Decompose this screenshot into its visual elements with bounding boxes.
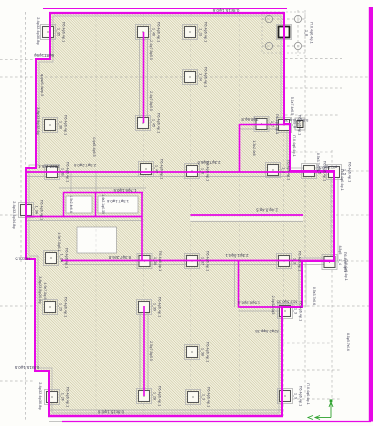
svg-text:1_3A: 1_3A [35, 206, 39, 215]
svg-text:Π6.4φ6.4φ.1: Π6.4φ6.4φ.1 [204, 67, 208, 87]
svg-text:1.3φ7.1φ0.6: 1.3φ7.1φ0.6 [106, 199, 129, 204]
svg-text:2.4φ7.8φ5.5: 2.4φ7.8φ5.5 [149, 40, 153, 60]
svg-text:1_9: 1_9 [294, 393, 298, 399]
svg-text:2.3φ1.δφ4.1: 2.3φ1.δφ4.1 [225, 253, 249, 258]
svg-text:Π6.4φ6.4φ.1: Π6.4φ6.4φ.1 [298, 115, 302, 135]
svg-text:1_J: 1_J [282, 167, 286, 173]
svg-text:1_37: 1_37 [201, 257, 205, 265]
svg-text:4.9ε7.δφ.6: 4.9ε7.δφ.6 [43, 283, 47, 300]
svg-text:1_J3: 1_J3 [199, 28, 203, 36]
svg-text:Π6.4φ6.4φ.1: Π6.4φ6.4φ.1 [206, 251, 210, 271]
svg-text:0.5ε3.7ε0.6: 0.5ε3.7ε0.6 [312, 287, 316, 305]
svg-text:1.4ε2.1φ0.35: 1.4ε2.1φ0.35 [101, 194, 105, 214]
svg-text:1_3: 1_3 [294, 308, 298, 314]
svg-text:1_38: 1_38 [201, 348, 205, 356]
svg-text:1_8: 1_8 [305, 30, 309, 36]
svg-text:1_6: 1_6 [201, 168, 205, 174]
svg-text:φ5Σ1φφ2-3: φ5Σ1φφ2-3 [319, 165, 337, 169]
svg-text:Π6.4φ6.4φ.1: Π6.4φ6.4φ.1 [158, 386, 162, 406]
svg-text:Π6.4φ6.4φ.1: Π6.4φ6.4φ.1 [40, 200, 44, 220]
svg-text:Π6.4φ6.4φ.1: Π6.4φ6.4φ.1 [287, 160, 291, 180]
svg-text:6φ8Σ1φ6φ: 6φ8Σ1φ6φ [34, 53, 54, 58]
svg-text:2.3φ7.δφ6.δ: 2.3φ7.δφ6.δ [197, 160, 221, 165]
svg-text:1_J4: 1_J4 [199, 73, 203, 81]
svg-text:Π6.4φ6.4φ.1: Π6.4φ6.4φ.1 [206, 342, 210, 362]
svg-text:4.9ε7.δφ6.1: 4.9ε7.δφ6.1 [57, 233, 61, 252]
svg-text:Π6.4φ6.4φ.1: Π6.4φ6.4φ.1 [298, 251, 302, 271]
svg-text:Π.0.4φ0.4φ.1: Π.0.4φ0.4φ.1 [344, 259, 348, 280]
svg-text:2.5φ7.8φ5.5: 2.5φ7.8φ5.5 [149, 341, 153, 361]
svg-text:1_2A: 1_2A [60, 254, 64, 263]
svg-text:2φ8.6φ.8: 2φ8.6φ.8 [241, 117, 259, 122]
svg-text:1_7: 1_7 [270, 121, 274, 127]
svg-text:1_29: 1_29 [59, 303, 63, 311]
svg-text:5.1ε7.4ε0.5: 5.1ε7.4ε0.5 [290, 97, 294, 115]
svg-text:Π6.4φ6.4φ.1: Π6.4φ6.4φ.1 [64, 115, 68, 135]
svg-text:0.5ε3.7ε0.5: 0.5ε3.7ε0.5 [316, 153, 320, 171]
svg-text:Π6.4φ6.4φ.1: Π6.4φ6.4φ.1 [207, 387, 211, 407]
svg-text:1_45: 1_45 [152, 119, 156, 127]
svg-text:0.8ε15.1φ0.6: 0.8ε15.1φ0.6 [97, 410, 124, 415]
svg-text:2.4φ32.4φ3: 2.4φ32.4φ3 [271, 296, 275, 315]
svg-text:1Β2Ζ6.5: 1Β2Ζ6.5 [15, 257, 31, 262]
svg-text:1_3b: 1_3b [61, 168, 65, 176]
svg-text:δΣ2.5φ0.35: δΣ2.5φ0.35 [276, 300, 297, 305]
svg-text:1_39: 1_39 [153, 303, 157, 311]
svg-text:Π6.4φ6.4φ.1: Π6.4φ6.4φ.1 [157, 113, 161, 133]
svg-text:8.3φ7.2ε6.8: 8.3φ7.2ε6.8 [108, 255, 131, 260]
svg-text:Π6.4φ6.4φ.1: Π6.4φ6.4φ.1 [160, 159, 164, 179]
svg-text:Π6.4φ6.4φ.1: Π6.4φ6.4φ.1 [65, 248, 69, 268]
svg-text:Π6.4φ6.4φ.1: Π6.4φ6.4φ.1 [348, 162, 352, 182]
svg-text:1_36: 1_36 [59, 121, 63, 129]
svg-text:2.3φ7.2φ0.5: 2.3φ7.2φ0.5 [73, 163, 96, 168]
svg-text:1_3: 1_3 [202, 394, 206, 400]
svg-text:1_4: 1_4 [338, 259, 342, 265]
svg-text:φ.φw5.4wφ.5: φ.φw5.4wφ.5 [40, 74, 44, 96]
svg-text:Π6.4φ6.4φ.1: Π6.4φ6.4φ.1 [323, 161, 327, 181]
svg-text:2.4φ.δ.4φ.5: 2.4φ.δ.4φ.5 [255, 208, 277, 213]
svg-text:1_3: 1_3 [293, 258, 297, 264]
svg-text:Π6.4φ6.4φ.1: Π6.4φ6.4φ.1 [299, 386, 303, 406]
svg-text:2.4φ32.4φ30.8φ: 2.4φ32.4φ30.8φ [36, 17, 40, 45]
svg-text:1_47: 1_47 [155, 165, 159, 173]
svg-text:5.5φ3Π5.φ.35: 5.5φ3Π5.φ.35 [283, 118, 309, 123]
svg-text:1Β2Ζ.2ε6.4: 1Β2Ζ.2ε6.4 [38, 164, 60, 169]
svg-text:1.3ε2.4ε6: 1.3ε2.4ε6 [252, 140, 256, 155]
svg-text:Π6.4φ6.4φ.1: Π6.4φ6.4φ.1 [275, 114, 279, 134]
svg-text:Π6.4φ6.4φ.1: Π6.4φ6.4φ.1 [158, 297, 162, 317]
svg-text:0.φε5.4φ6.5: 0.φε5.4φ6.5 [92, 137, 96, 156]
svg-text:1_28: 1_28 [153, 392, 157, 400]
svg-text:2.4φ7.8φ5.5: 2.4φ7.8φ5.5 [149, 91, 153, 111]
svg-text:Π6.4φ6.4φ.1: Π6.4φ6.4φ.1 [299, 301, 303, 321]
svg-text:8.δφ5.7ε0.6: 8.δφ5.7ε0.6 [346, 333, 350, 351]
svg-text:0.8ε15.1φ0.5: 0.8ε15.1φ0.5 [14, 365, 39, 370]
svg-text:1_2F: 1_2F [61, 393, 65, 402]
svg-text:Π6.4φ6.4φ.1: Π6.4φ6.4φ.1 [66, 387, 70, 407]
svg-text:Π6.4φ6.4φ.1: Π6.4φ6.4φ.1 [157, 22, 161, 42]
svg-text:Π.0.4φ0.4φ.1: Π.0.4φ0.4φ.1 [292, 135, 296, 156]
svg-text:Π.0.4φ0.4φ.1: Π.0.4φ0.4φ.1 [310, 22, 314, 43]
svg-text:1_46: 1_46 [152, 28, 156, 36]
svg-text:Π6.4φ6.4φ.1: Π6.4φ6.4φ.1 [62, 22, 66, 42]
svg-text:2.4φ32.4φ34.8φ: 2.4φ32.4φ34.8φ [12, 201, 16, 229]
svg-text:2.4φ32.4φ30.8φ: 2.4φ32.4φ30.8φ [38, 382, 42, 410]
svg-text:8.δφ5: 8.δφ5 [338, 246, 342, 255]
svg-text:3.8φ23.8φ20.8φ: 3.8φ23.8φ20.8φ [38, 276, 42, 304]
svg-text:1.7φ6.1φ0.6: 1.7φ6.1φ0.6 [113, 188, 137, 193]
svg-text:δ2φ2.5φφ.35: δ2φ2.5φφ.35 [255, 329, 279, 334]
svg-text:1_30: 1_30 [153, 257, 157, 265]
svg-text:1.5ε2.4ε6.4: 1.5ε2.4ε6.4 [69, 195, 73, 212]
svg-text:1_35: 1_35 [57, 28, 61, 36]
svg-text:Π6.4φ6.4φ.1: Π6.4φ6.4φ.1 [204, 22, 208, 42]
svg-text:1.5φ6.2φ6.Δ: 1.5φ6.2φ6.Δ [238, 301, 261, 306]
svg-text:Π6.4φ6.4φ.1: Π6.4φ6.4φ.1 [66, 162, 70, 182]
svg-text:Π6.4φ6.4φ.1: Π6.4φ6.4φ.1 [158, 251, 162, 271]
svg-text:3.8φ32.8φ32.4φ: 3.8φ32.8φ32.4φ [36, 107, 40, 135]
svg-text:Π.0.4φ0.4φ.1: Π.0.4φ0.4φ.1 [306, 383, 310, 404]
svg-text:Π6.4φ6.4φ.1: Π6.4φ6.4φ.1 [64, 297, 68, 317]
svg-text:0.8ε15.1φ0.6: 0.8ε15.1φ0.6 [212, 8, 239, 13]
svg-text:Π.0.4φ0.4φ.1: Π.0.4φ0.4φ.1 [340, 169, 344, 190]
